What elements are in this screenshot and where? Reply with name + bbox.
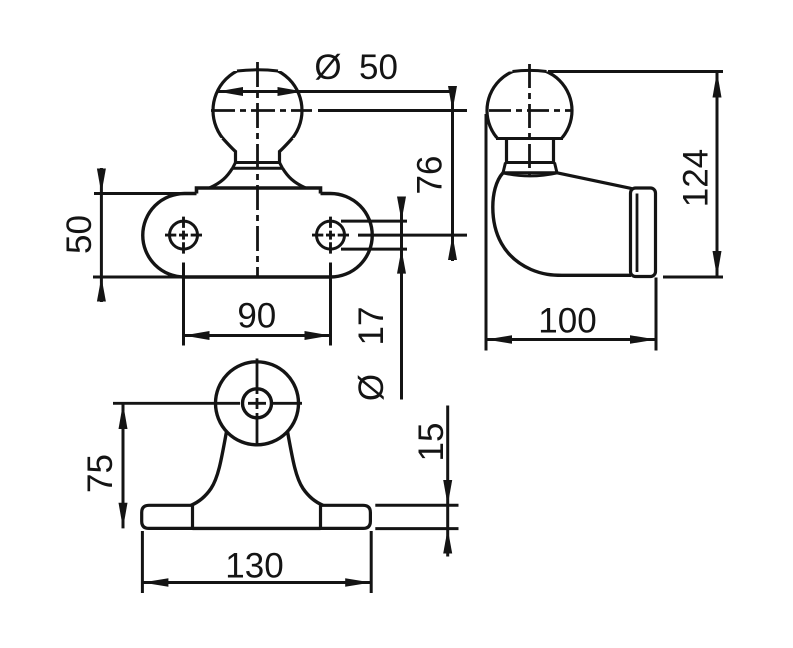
dim 100 extension left [485,114,488,351]
plinth step (front view) [197,188,321,194]
arrow 90 right [305,331,331,340]
front view ball horizontal centerline [211,109,312,112]
dim 76 line [451,86,454,261]
collar toe arc (side view) [503,173,557,176]
side view horizontal centerline [489,109,572,112]
left hole (front view) [170,221,198,249]
bottom view vertical centerline [256,359,259,447]
dim 76 extension bottom [358,234,467,237]
right hole (front view) [317,221,345,249]
arrow 124 bottom [713,251,722,277]
dim 50 extension top [94,192,182,195]
dim D17 line [400,197,403,400]
dim 15 extension top [375,504,458,507]
arrow D17 top [397,197,406,222]
collar band (side view) [503,163,557,173]
bottom view horizontal centerline / 75 extension [113,402,302,405]
neck top chord (side view) [496,137,563,140]
svg-text:15: 15 [412,423,451,462]
arrow 50 top [97,169,106,194]
base bottom edge (bottom view) [193,527,321,530]
svg-text:76: 76 [411,156,450,195]
body profile left and bottom (side view) [493,173,631,275]
arrow D50 left [218,87,244,96]
dim 76 extension top [318,109,467,112]
arrow 90 left [184,331,210,340]
dim D17 extension bottom [341,248,407,251]
dim 15 line [446,406,449,557]
svg-text:75: 75 [81,454,120,493]
arrow 75 top [119,403,128,429]
svg-text:50: 50 [359,48,398,87]
dim 75 line [122,403,125,528]
dim 50 line [100,168,103,302]
arrow 76 top [448,86,457,111]
dim leader line D50 [218,90,456,93]
left pad junction line [191,505,194,528]
arrow 130 right [345,578,371,587]
arrow 100 right [630,335,656,344]
dim 130 line [142,581,371,584]
dim 90 extension left [182,263,185,346]
left hole crosshair [165,217,202,254]
mounting plate (side view) [631,188,656,277]
collar band (front view) [233,163,283,169]
svg-text:17: 17 [352,307,391,346]
side view vertical centerline [528,64,531,176]
right pad (bottom view) [321,505,371,528]
ball (side view) [478,54,581,158]
trumpet flare (front view) [210,168,306,188]
dim 90 line [184,334,331,337]
dim 124 extension bottom [663,276,723,279]
arrow D50 right [278,87,304,96]
arrow D17 bottom [397,249,406,274]
dim 15 extension bottom [375,527,458,530]
dim 50 extension bottom [93,276,185,279]
arrow 50 bottom [97,277,106,302]
arrow 75 bottom [119,503,128,529]
svg-text:Ø: Ø [352,374,391,401]
front view vertical centerline [256,62,259,277]
dim 130 extension left [141,531,144,593]
arrow 130 left [142,578,168,587]
body stadium outline (front view) [143,194,373,278]
dim 100 line [486,338,656,341]
arm top edge (side view) [557,173,633,189]
mounting plate inner line [636,194,639,273]
left leg (bottom view) [191,432,227,506]
arrow 124 top [713,72,722,98]
dim 124 line [716,72,719,278]
svg-text:Ø: Ø [314,48,341,87]
svg-text:90: 90 [237,297,276,336]
left pad (bottom view) [142,505,193,528]
svg-text:124: 124 [677,149,716,207]
dim 90 extension right [329,263,332,346]
arrow 100 left [486,335,512,344]
ball (front view) [203,52,313,158]
svg-text:130: 130 [225,547,283,586]
svg-text:100: 100 [538,302,596,341]
dim 100 extension right [655,278,658,351]
ball neck (front view) [223,138,293,163]
dim D17 extension top [341,220,407,223]
right pad junction line [319,505,322,528]
svg-text:50: 50 [60,215,99,254]
arrow 15 top [443,480,452,505]
hole inner circle (bottom view) [243,389,272,418]
dim 130 extension right [370,531,373,593]
boss outer circle (bottom view) [216,362,299,445]
arrow 15 bottom [443,529,452,554]
right leg (bottom view) [288,432,324,506]
right hole crosshair [312,217,349,254]
neck sides (side view) [507,139,554,163]
arrow 76 bottom [448,235,457,260]
dim 124 extension top [548,70,723,73]
